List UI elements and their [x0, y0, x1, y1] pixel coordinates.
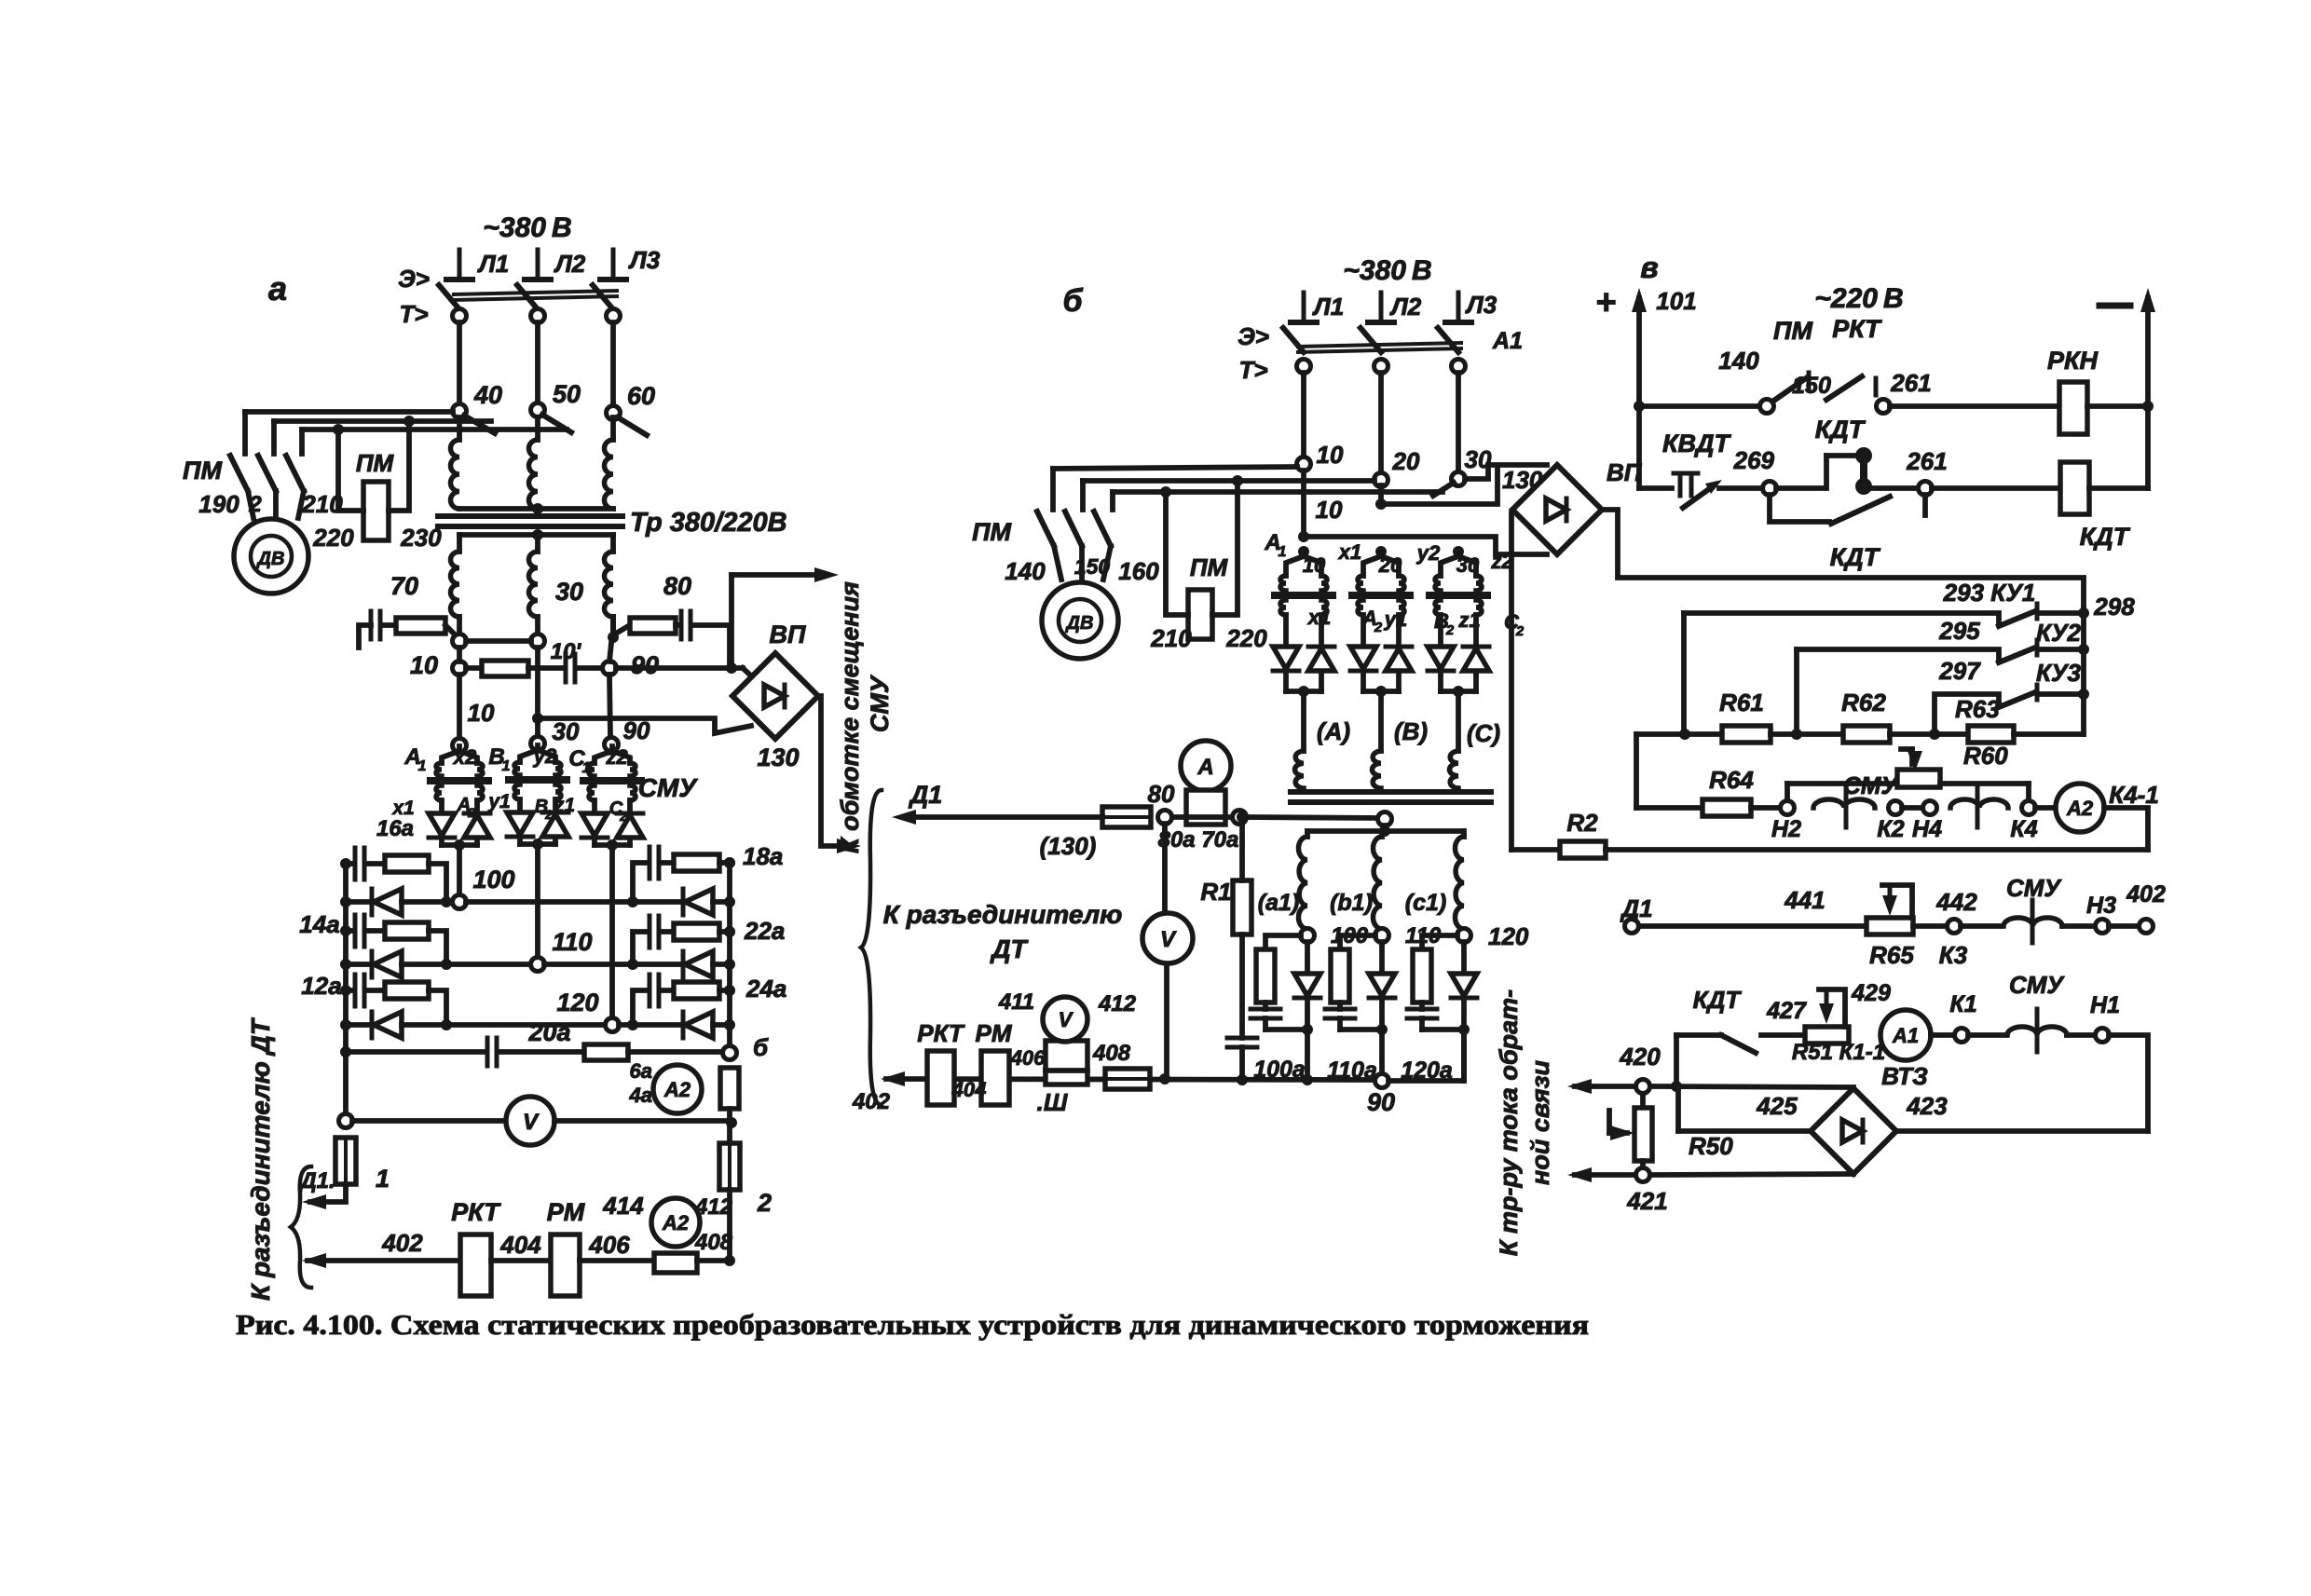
bus wires L1-L3 (a) — [457, 322, 462, 404]
RC branch left row3 — [346, 988, 353, 993]
svg-text:261: 261 — [1890, 369, 1931, 397]
bridge feed from node 30 — [1465, 465, 1547, 479]
rung KU3 R63 bypass — [1935, 694, 1999, 730]
svg-text:ПМ: ПМ — [972, 518, 1011, 546]
svg-text:1: 1 — [376, 1165, 390, 1193]
node 20 (b) — [1374, 473, 1388, 487]
svg-text:КДТ: КДТ — [1815, 416, 1867, 443]
motor DV (a) — [234, 519, 308, 593]
capacitor row B — [528, 665, 563, 671]
SMU block node 10 — [453, 739, 467, 753]
svg-text:406: 406 — [588, 1231, 630, 1259]
SMU winding pair phase B (a) — [535, 745, 540, 750]
svg-text:2: 2 — [544, 807, 553, 822]
svg-text:12а: 12а — [301, 972, 341, 1000]
ammeter A1 — [1880, 1010, 1931, 1060]
svg-text:R63: R63 — [1955, 695, 2000, 723]
bias output arrow top — [729, 575, 734, 663]
svg-text:408: 408 — [694, 1230, 733, 1255]
D1 row wire — [1639, 923, 1867, 929]
branch resistor at 1526 — [1422, 935, 1457, 949]
disconnect bar Л3 (a) — [611, 250, 616, 280]
disconnect bar Л1 (b) — [1302, 293, 1306, 322]
KCh row to R2 — [2104, 808, 2148, 850]
svg-text:К разъединителю: К разъединителю — [883, 900, 1123, 929]
svg-text:А2: А2 — [662, 1211, 690, 1235]
svg-text:КДТ: КДТ — [1830, 543, 1881, 571]
svg-text:РКТ: РКТ — [1832, 315, 1882, 343]
bottom row wire (a) — [308, 1258, 460, 1263]
svg-text:Л2: Л2 — [1389, 293, 1422, 321]
svg-text:К3: К3 — [1939, 941, 1968, 969]
svg-text:423: 423 — [1906, 1092, 1948, 1120]
row line 120 — [402, 1022, 606, 1028]
svg-text:425: 425 — [1756, 1092, 1798, 1120]
coil PM (b) — [1188, 590, 1212, 639]
svg-text:412: 412 — [1098, 991, 1137, 1016]
row line 110 — [402, 962, 531, 967]
R60 potentiometer bypass — [1785, 784, 1790, 801]
svg-text:Э>: Э> — [1238, 322, 1269, 350]
svg-text:1: 1 — [418, 758, 427, 774]
wire 80a-70a (b) — [1172, 814, 1233, 820]
svg-text:x1: x1 — [1307, 606, 1331, 629]
svg-text:10: 10 — [1317, 441, 1344, 469]
svg-text:Рис. 4.100. Схема статических: Рис. 4.100. Схема статических преобразов… — [236, 1308, 1589, 1341]
arrow 421 — [1575, 1172, 1635, 1178]
svg-text:2: 2 — [1445, 622, 1455, 638]
RC branch left 14a-row1 — [346, 861, 353, 866]
arrow D1 (b) — [903, 814, 1102, 820]
svg-text:К1: К1 — [1949, 991, 1976, 1017]
diode right 22a-row2 — [685, 951, 713, 977]
svg-text:90: 90 — [623, 716, 650, 744]
SMU winding pair phase B (b) — [1375, 546, 1387, 557]
diode right 18a-row1 — [685, 889, 713, 915]
transformer core (b) — [1291, 789, 1491, 795]
disconnect bar Л2 (a) — [536, 250, 540, 280]
svg-text:20а: 20а — [527, 1018, 570, 1046]
svg-text:90: 90 — [1367, 1088, 1395, 1116]
svg-text:R65: R65 — [1869, 941, 1914, 969]
svg-text:~380 В: ~380 В — [1343, 255, 1431, 286]
svg-text:Л2: Л2 — [554, 250, 586, 278]
contactor PM blades (a) — [230, 456, 248, 491]
bridge feed from node 20 — [1375, 498, 1387, 510]
contact 269 — [1763, 482, 1777, 496]
svg-text:(130): (130) — [1040, 832, 1097, 860]
node 30 (b) — [1452, 472, 1466, 486]
svg-text:429: 429 — [1851, 980, 1891, 1006]
svg-text:ДВ: ДВ — [1065, 613, 1094, 634]
node 100 (b) — [1301, 929, 1315, 943]
svg-text:120: 120 — [556, 989, 598, 1016]
svg-text:КУ3: КУ3 — [2036, 659, 2082, 687]
svg-text:Л3: Л3 — [628, 246, 661, 274]
svg-text:ПМ: ПМ — [1190, 553, 1229, 581]
breaker double line (b) — [1298, 343, 1461, 347]
relay RKT (b) — [927, 1051, 954, 1105]
blade PM (v) — [1772, 378, 1806, 402]
ammeter A2 bottom with shunt — [654, 1253, 697, 1273]
svg-text:К обмотке смещения: К обмотке смещения — [836, 581, 864, 853]
svg-text:ВТЗ: ВТЗ — [1881, 1062, 1928, 1090]
svg-text:411: 411 — [998, 989, 1034, 1015]
node H3 — [2062, 923, 2096, 929]
node 10 row B — [453, 662, 467, 675]
svg-text:z1: z1 — [554, 795, 575, 816]
svg-text:412: 412 — [694, 1194, 733, 1220]
svg-text:.Ш: .Ш — [1037, 1088, 1068, 1116]
svg-text:Л1: Л1 — [477, 250, 509, 278]
motor DV (b) — [1042, 582, 1118, 659]
svg-text:50: 50 — [553, 380, 581, 408]
rectifier VP (a) — [732, 653, 818, 739]
blade node30 (b) — [1433, 483, 1454, 496]
svg-text:(с1): (с1) — [1405, 890, 1446, 916]
svg-text:А2: А2 — [2066, 797, 2094, 820]
svg-text:ВП: ВП — [770, 621, 806, 648]
node 298 rail — [2081, 607, 2086, 734]
disconnect bar Л1 (a) — [458, 250, 462, 280]
svg-text:Т>: Т> — [1238, 356, 1267, 384]
SMU coil D1 row — [1961, 923, 2001, 929]
branch resistor at 1358 — [1265, 935, 1301, 949]
svg-text:СМУ: СМУ — [866, 675, 894, 732]
svg-text:293 КУ1: 293 КУ1 — [1943, 579, 2036, 607]
rung2 wire — [1719, 485, 1763, 491]
svg-text:1: 1 — [582, 760, 591, 776]
VP output lower arrow — [818, 696, 850, 846]
blade RKT (v) — [1826, 376, 1862, 400]
wire 421 to VT3 bottom — [1650, 1174, 1853, 1175]
SMU winding pair phase A (a) — [457, 746, 462, 751]
RC branch right 24a-row3 — [633, 990, 648, 1025]
wire K2-H4 — [1902, 805, 1922, 811]
node b — [723, 1046, 737, 1060]
node 90 row B — [603, 662, 617, 675]
node 80a (b) — [1158, 811, 1172, 825]
svg-text:30: 30 — [1456, 553, 1480, 577]
wire RM-A2 — [580, 1258, 654, 1263]
svg-text:1: 1 — [1279, 544, 1287, 560]
coil PM (a) — [363, 482, 389, 540]
R2 resistor — [1511, 847, 1560, 853]
bypass blade KDT — [1770, 495, 1829, 522]
svg-text:427: 427 — [1766, 998, 1807, 1024]
svg-text:К разъединителю ДТ: К разъединителю ДТ — [246, 1016, 275, 1301]
svg-text:404: 404 — [499, 1231, 541, 1259]
wire line3 to PM — [302, 427, 567, 432]
svg-text:402: 402 — [852, 1089, 891, 1114]
svg-text:К2: К2 — [1877, 816, 1904, 842]
brace (b) — [861, 790, 882, 1105]
node circle bus1 row A — [453, 634, 467, 648]
svg-text:R62: R62 — [1841, 689, 1886, 716]
transformer secondary coils (a) — [457, 535, 462, 552]
diode left row2 — [346, 962, 372, 967]
svg-text:А1: А1 — [1492, 328, 1523, 354]
voltmeter 411-412 (b) — [1046, 1041, 1087, 1084]
svg-text:24а: 24а — [745, 975, 786, 1003]
svg-text:R50: R50 — [1689, 1132, 1733, 1160]
svg-text:20: 20 — [1392, 447, 1420, 475]
ammeter A2 with shunt (right rail) — [720, 1068, 739, 1109]
plus rail arrow up — [1636, 298, 1642, 406]
wire 420 to VT3 top — [1650, 1086, 1853, 1087]
wire to 261a — [1871, 485, 1919, 491]
contactor PM blades (b) — [1037, 512, 1054, 546]
wires PM coil (a) — [338, 430, 363, 511]
contact H2 — [1781, 801, 1795, 815]
node 110 (b) — [1375, 929, 1389, 943]
svg-text:Тр 380/220В: Тр 380/220В — [630, 508, 787, 538]
svg-text:2: 2 — [467, 805, 475, 820]
right rail to bottom row — [727, 1190, 732, 1261]
svg-text:СМУ: СМУ — [1843, 771, 1899, 799]
wire line1 (b) — [1053, 467, 1297, 469]
R65 potentiometer — [1867, 918, 1913, 934]
svg-text:190: 190 — [198, 490, 239, 518]
node 40 — [453, 404, 467, 418]
relay RKT (a) — [460, 1235, 491, 1296]
svg-text:А: А — [1197, 755, 1213, 780]
rung KU2 — [1797, 649, 1999, 661]
SMU winding pair phase C (b) — [1453, 546, 1464, 557]
svg-text:а: а — [268, 269, 287, 307]
wire line1 to PM — [245, 409, 453, 415]
rung1 wire right — [1890, 403, 2059, 409]
fuse bottom (b) — [1105, 1069, 1150, 1089]
svg-text:120: 120 — [1488, 922, 1529, 950]
contact 140 — [1760, 400, 1774, 414]
arrow 420 — [1575, 1084, 1635, 1089]
svg-text:ДТ: ДТ — [990, 934, 1029, 963]
wire row A — [466, 638, 531, 644]
wire line2 to PM — [274, 418, 491, 424]
svg-text:20: 20 — [1378, 553, 1402, 577]
left rail down to rung2 — [1636, 406, 1642, 488]
svg-text:Н2: Н2 — [1771, 816, 1801, 842]
svg-text:150: 150 — [1792, 373, 1831, 399]
svg-text:Э>: Э> — [398, 265, 430, 293]
svg-text:(С): (С) — [1467, 719, 1500, 747]
svg-text:Т>: Т> — [399, 300, 428, 328]
SMU block node 30 — [531, 737, 545, 751]
contact K4 — [2022, 801, 2036, 815]
svg-text:408: 408 — [1092, 1041, 1131, 1066]
svg-text:2: 2 — [757, 1189, 772, 1217]
wire VT3 right — [1896, 1128, 2148, 1134]
svg-text:V: V — [1059, 1008, 1074, 1031]
fuse 2 — [719, 1143, 740, 1190]
node 442 — [1913, 923, 1948, 929]
svg-text:V: V — [523, 1110, 540, 1135]
svg-text:2: 2 — [1515, 623, 1525, 639]
svg-text:60: 60 — [627, 382, 655, 410]
svg-text:269: 269 — [1733, 446, 1775, 474]
svg-text:40: 40 — [473, 381, 502, 409]
secondary rail (b) — [1382, 825, 1388, 831]
bus3 segment — [610, 617, 616, 632]
svg-text:1: 1 — [502, 758, 511, 774]
svg-text:30: 30 — [555, 578, 583, 606]
R51 potentiometer — [1805, 1027, 1849, 1044]
bus1 segment — [457, 648, 462, 662]
transformer Tr primary coils (a) — [457, 417, 462, 440]
svg-text:220: 220 — [312, 524, 354, 552]
RC snubber 70 left — [359, 625, 371, 648]
node 120 (b) — [1457, 929, 1471, 943]
svg-text:СМУ: СМУ — [638, 773, 699, 802]
svg-text:442: 442 — [1935, 888, 1977, 916]
disconnect bar Л2 (b) — [1379, 293, 1384, 322]
resistor row — [1636, 731, 1722, 737]
svg-text:80: 80 — [1148, 780, 1175, 808]
right rail lower — [727, 1109, 732, 1118]
wire to VP bridge top — [616, 665, 743, 671]
SMU winding pair phase C (a) — [609, 746, 615, 751]
relay RM (a) — [551, 1235, 580, 1296]
row 20a wire — [346, 1049, 484, 1055]
svg-text:150: 150 — [1074, 554, 1111, 579]
svg-text:101: 101 — [1656, 287, 1696, 315]
svg-text:КДТ: КДТ — [1693, 986, 1743, 1014]
contact 261 — [1877, 400, 1891, 414]
R50 resistor — [1640, 1094, 1646, 1108]
node 60 — [607, 406, 621, 420]
diode right 24a-row3 — [685, 1012, 713, 1038]
svg-text:ПМ: ПМ — [1773, 317, 1812, 345]
svg-text:РКТ: РКТ — [451, 1198, 501, 1226]
contact H4 — [1923, 801, 1937, 815]
wire shunt to rail — [697, 1258, 730, 1263]
svg-text:10: 10 — [468, 699, 495, 727]
node 402 (v) — [2109, 923, 2140, 929]
svg-text:70: 70 — [390, 572, 418, 600]
rung2 wire right — [1932, 485, 2060, 491]
RC branch right 22a-row2 — [633, 932, 648, 964]
R64 row — [1636, 805, 1702, 811]
branch diode at 1571 — [1461, 942, 1467, 974]
svg-text:+: + — [1595, 283, 1616, 322]
svg-text:ДВ: ДВ — [256, 549, 285, 569]
svg-text:ПМ: ПМ — [183, 457, 222, 484]
svg-text:КВДТ: КВДТ — [1662, 430, 1732, 457]
svg-text:R64: R64 — [1709, 766, 1754, 794]
svg-text:V: V — [1160, 927, 1177, 952]
svg-text:16а: 16а — [376, 816, 414, 841]
wire row 771 to VP — [538, 718, 751, 733]
breaker contacts (a) — [453, 309, 467, 323]
contact 261a — [1919, 482, 1933, 496]
wire line2 (b) — [1083, 478, 1374, 484]
svg-text:402: 402 — [381, 1229, 423, 1257]
svg-text:R60: R60 — [1963, 742, 2008, 770]
row line 100 — [402, 899, 453, 905]
svg-text:80а 70а: 80а 70а — [1158, 827, 1239, 853]
SMU coil 1 (KCh row) — [1813, 799, 1875, 808]
svg-text:295: 295 — [1938, 617, 1980, 645]
svg-text:Л1: Л1 — [1312, 293, 1344, 321]
node 10 (b) — [1297, 457, 1311, 471]
svg-text:б: б — [1062, 283, 1083, 319]
svg-text:у2: у2 — [1416, 541, 1441, 565]
vertical stub KU2 — [1794, 649, 1799, 734]
svg-text:4а: 4а — [629, 1084, 652, 1107]
svg-text:~380 В: ~380 В — [483, 212, 571, 243]
ammeter A2 (KCh row) — [2035, 805, 2056, 811]
transformer core (a) — [438, 513, 622, 519]
right rail (a network) — [727, 865, 732, 1046]
time dashpot contact KDT — [1776, 485, 1822, 491]
branch diode at 1483 — [1379, 942, 1385, 974]
branch diode at 1403 — [1305, 942, 1310, 974]
svg-text:2: 2 — [1374, 620, 1383, 635]
svg-text:~220 В: ~220 В — [1814, 283, 1903, 314]
svg-text:СМУ: СМУ — [2009, 971, 2065, 999]
node 420 — [1636, 1080, 1650, 1094]
svg-text:140: 140 — [1005, 557, 1046, 585]
primary common rail (a) — [459, 506, 613, 512]
left rail KU network — [1634, 734, 1639, 808]
SMU coil K1 row — [1968, 1032, 2005, 1038]
svg-text:(В): (В) — [1394, 717, 1428, 745]
K1 row left — [1676, 1032, 1721, 1038]
bus2 segment — [535, 648, 540, 736]
svg-text:Д1: Д1 — [1620, 894, 1652, 922]
breaker double bus line (a) — [454, 291, 617, 294]
RC branch right 18a-row1 — [633, 863, 648, 902]
fuse 80 row (b) — [1102, 807, 1151, 827]
svg-text:у1: у1 — [487, 791, 510, 812]
svg-text:140: 140 — [1718, 347, 1759, 375]
wire line3 (b) — [1113, 489, 1443, 495]
left rail (a network) — [343, 866, 349, 1113]
svg-text:К4: К4 — [2010, 816, 2037, 842]
svg-text:(а1): (а1) — [1258, 890, 1299, 916]
svg-text:298: 298 — [2093, 593, 2135, 621]
resistor row B — [466, 665, 482, 671]
voltmeter V row (a) — [339, 1114, 353, 1128]
svg-text:РКТ: РКТ — [917, 1019, 965, 1047]
VP-b output to KU network — [1602, 510, 2084, 607]
wire RKT-RM — [491, 1258, 551, 1263]
disconnect bar Л3 (b) — [1456, 293, 1461, 322]
diode left row3 — [346, 1022, 372, 1028]
svg-text:402: 402 — [2126, 881, 2166, 907]
bottom rail (b) — [886, 1079, 1375, 1080]
svg-text:К4-1: К4-1 — [2109, 781, 2159, 809]
VP-b DC minus down wire — [1509, 513, 1514, 850]
arrow to disconnector D1 — [310, 1184, 346, 1202]
svg-text:ной связи: ной связи — [1526, 1060, 1554, 1185]
svg-text:К тр-ру тока обрат-: К тр-ру тока обрат- — [1495, 989, 1523, 1256]
RC branch left row2 — [346, 928, 353, 934]
relay KDT — [2060, 462, 2089, 514]
svg-text:x2: x2 — [453, 745, 477, 769]
svg-text:18а: 18а — [743, 842, 783, 870]
bus wires (b) — [1301, 373, 1306, 457]
svg-text:R1: R1 — [1200, 878, 1231, 906]
contact K2 — [1889, 801, 1903, 815]
fuse 1 — [335, 1138, 356, 1184]
svg-text:441: 441 — [1784, 886, 1825, 914]
svg-text:130: 130 — [757, 743, 799, 771]
rectifier VP (b) — [1512, 465, 1602, 554]
svg-text:СМУ: СМУ — [2006, 874, 2062, 902]
bridge feed from bus1 phase A — [1298, 531, 1309, 542]
